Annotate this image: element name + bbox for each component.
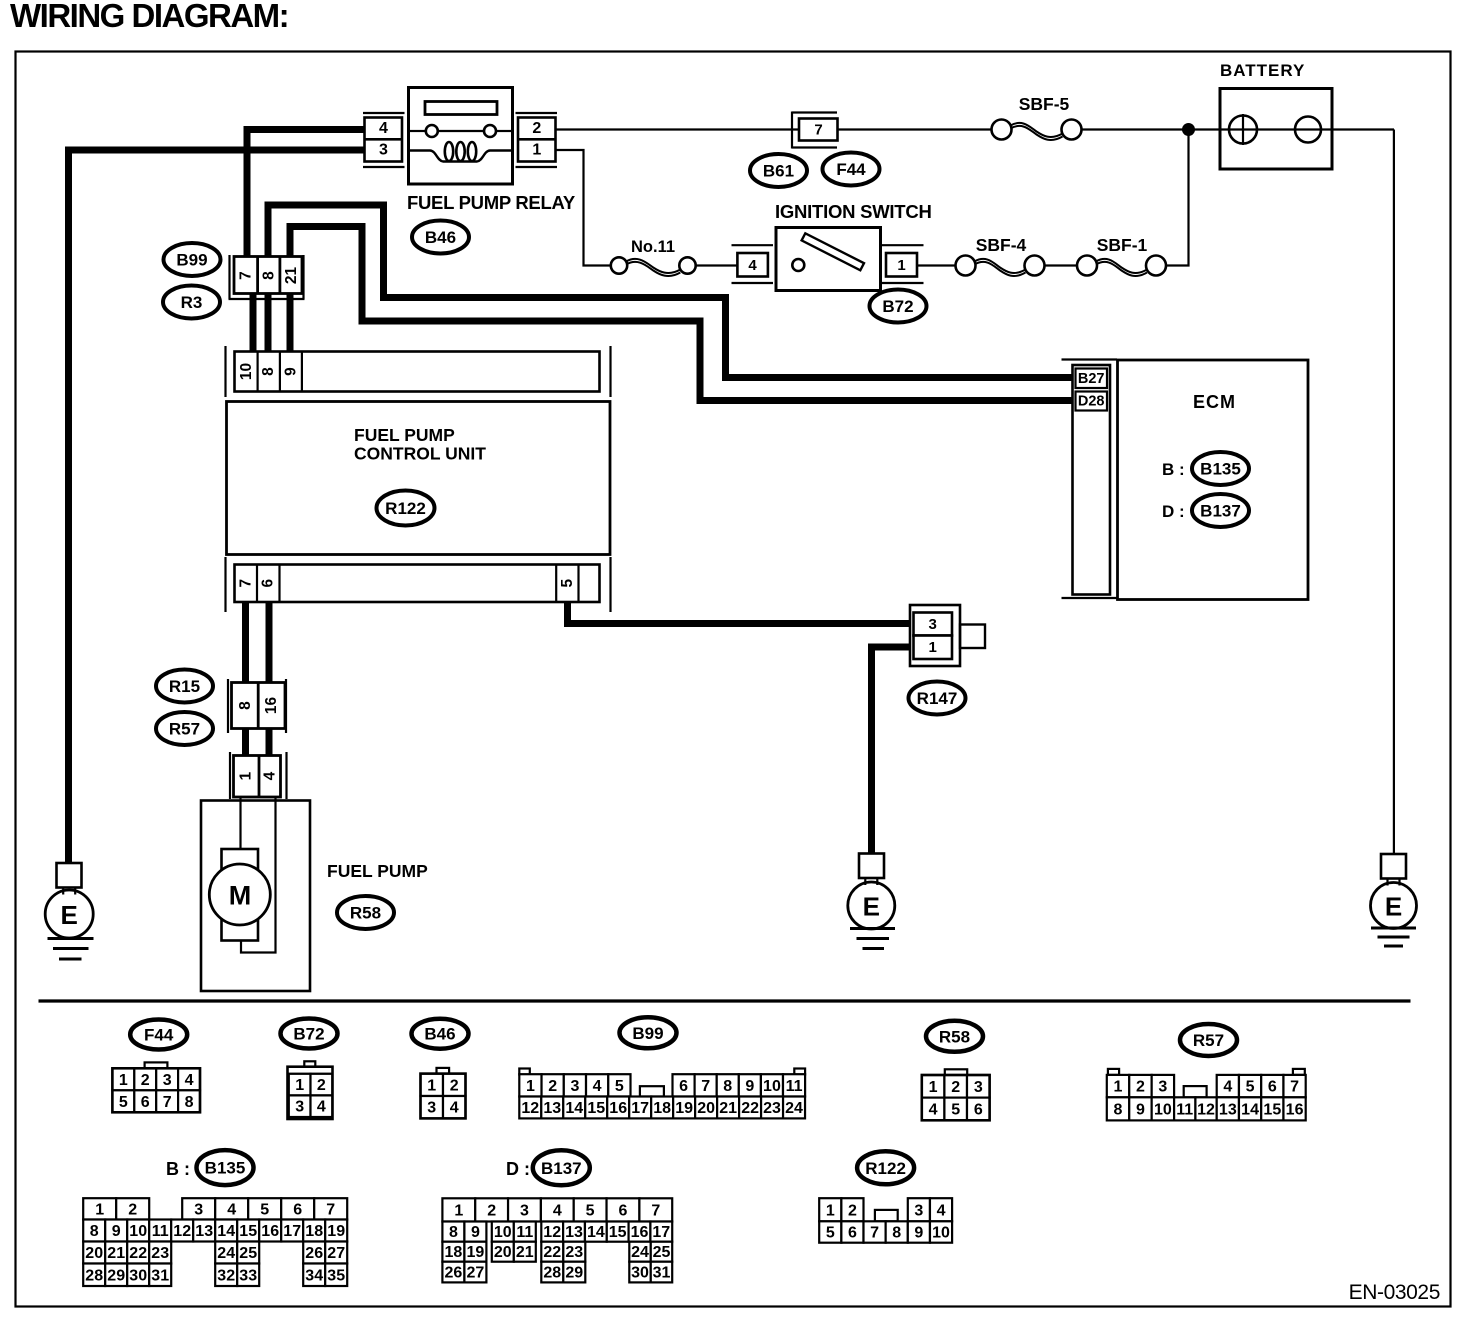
- wire ignition switch pin1 to fuse SBF-4: [916, 264, 956, 266]
- ECM connector column: [1073, 365, 1111, 595]
- svg-text:B61: B61: [763, 162, 794, 181]
- svg-text:2: 2: [548, 1078, 557, 1095]
- svg-text:M: M: [229, 881, 252, 911]
- connector label B61: [750, 154, 807, 187]
- svg-text:30: 30: [129, 1267, 147, 1284]
- svg-text:14: 14: [565, 1100, 583, 1117]
- svg-text:4: 4: [379, 120, 388, 137]
- svg-text:22: 22: [129, 1245, 147, 1262]
- svg-text:17: 17: [652, 1224, 670, 1241]
- svg-text:8: 8: [1114, 1101, 1123, 1118]
- label FUEL PUMP: [327, 861, 428, 881]
- svg-text:7: 7: [701, 1078, 710, 1095]
- svg-text:R57: R57: [1193, 1031, 1224, 1050]
- svg-text:2: 2: [848, 1202, 857, 1219]
- fuel pump relay B46 body: [409, 88, 513, 185]
- svg-text:4: 4: [227, 1201, 236, 1218]
- svg-text:21: 21: [719, 1100, 737, 1117]
- fuse SBF-5: [992, 120, 1082, 141]
- svg-text:R3: R3: [181, 293, 203, 312]
- control unit bottom connector brackets: [226, 557, 611, 612]
- svg-text:24: 24: [785, 1100, 803, 1117]
- svg-text:15: 15: [239, 1223, 257, 1240]
- svg-text:17: 17: [283, 1223, 301, 1240]
- wire relay pin2 to fuse connector 7: [554, 128, 799, 130]
- svg-text:32: 32: [217, 1267, 235, 1284]
- svg-text:2: 2: [1136, 1079, 1145, 1096]
- svg-text:4: 4: [1223, 1079, 1232, 1096]
- ground E right: [1371, 854, 1417, 946]
- svg-text:1: 1: [532, 142, 541, 159]
- ignition switch connector pin1: [882, 245, 924, 283]
- connector R15 R57 brackets: [228, 679, 286, 733]
- fuse SBF-1: [1077, 256, 1166, 277]
- svg-text:21: 21: [107, 1245, 125, 1262]
- svg-text:10: 10: [932, 1225, 950, 1242]
- svg-text:19: 19: [675, 1100, 693, 1117]
- svg-text:B99: B99: [632, 1024, 663, 1043]
- wire battery feed down right side to ground E right: [1393, 130, 1395, 856]
- wire R147 pin1 to ground E middle: [872, 647, 915, 854]
- svg-text:28: 28: [543, 1265, 561, 1282]
- label ECM: [1193, 392, 1236, 412]
- svg-text:R58: R58: [350, 904, 381, 923]
- wire relay pin4 to connector B99 pin7: [247, 130, 366, 259]
- svg-text:28: 28: [85, 1267, 103, 1284]
- svg-text:8: 8: [90, 1223, 99, 1240]
- svg-text:21: 21: [516, 1244, 534, 1261]
- ground E middle: [848, 854, 895, 949]
- wire relay pin3 to ground E left: [69, 150, 367, 863]
- svg-text:R57: R57: [169, 720, 200, 739]
- svg-text:31: 31: [151, 1267, 169, 1284]
- svg-text:31: 31: [653, 1265, 671, 1282]
- svg-text:R122: R122: [865, 1159, 906, 1178]
- label SBF-5: [1019, 94, 1070, 114]
- connector label R58: [337, 896, 394, 929]
- svg-text:R15: R15: [169, 677, 200, 696]
- wire R15 pin16 to fuel pump connector pin4: [266, 727, 273, 758]
- svg-text:13: 13: [543, 1100, 561, 1117]
- svg-text:7: 7: [237, 579, 254, 588]
- ignition switch box: [776, 228, 881, 291]
- svg-text:6: 6: [141, 1094, 150, 1111]
- svg-text:D :: D :: [1162, 502, 1185, 521]
- svg-text:B137: B137: [1200, 502, 1241, 521]
- connector label R15: [156, 670, 213, 703]
- svg-text:12: 12: [1197, 1101, 1215, 1118]
- svg-text:3: 3: [570, 1078, 579, 1095]
- svg-text:1: 1: [526, 1078, 535, 1095]
- svg-text:25: 25: [653, 1244, 671, 1261]
- svg-text:20: 20: [697, 1100, 715, 1117]
- svg-text:8: 8: [260, 271, 277, 280]
- svg-text:E: E: [1385, 892, 1402, 922]
- connector label R122: [377, 491, 435, 526]
- connector pinout B72: [281, 1019, 338, 1120]
- svg-text:17: 17: [631, 1100, 649, 1117]
- svg-text:10: 10: [494, 1224, 512, 1241]
- connector pinout B99: [519, 1017, 805, 1118]
- connector label B46: [412, 221, 469, 254]
- svg-text:4: 4: [261, 771, 278, 780]
- battery box: [1220, 89, 1332, 170]
- svg-text:26: 26: [305, 1245, 323, 1262]
- svg-text:15: 15: [1263, 1101, 1281, 1118]
- svg-text:F44: F44: [836, 160, 866, 179]
- svg-text:3: 3: [427, 1100, 436, 1117]
- wire relay pin1 down to fuse No.11: [554, 150, 611, 266]
- wire control unit pin5 to connector R147 pin3: [568, 601, 913, 624]
- svg-text:18: 18: [305, 1223, 323, 1240]
- svg-text:3: 3: [194, 1201, 203, 1218]
- svg-text:D :: D :: [506, 1159, 530, 1179]
- svg-text:7: 7: [870, 1225, 879, 1242]
- svg-text:F44: F44: [144, 1026, 174, 1045]
- svg-text:5: 5: [826, 1225, 835, 1242]
- label FUEL PUMP CONTROL UNIT: [354, 425, 486, 464]
- svg-text:SBF-4: SBF-4: [976, 235, 1027, 255]
- connector label F44: [823, 153, 880, 186]
- fuel pump motor M: [209, 864, 270, 925]
- svg-text:1: 1: [826, 1202, 835, 1219]
- svg-text:8: 8: [892, 1225, 901, 1242]
- svg-text:2: 2: [141, 1072, 150, 1089]
- svg-text:3: 3: [914, 1202, 923, 1219]
- svg-text:B :: B :: [166, 1159, 190, 1179]
- connector label B99: [164, 243, 221, 276]
- svg-text:11: 11: [152, 1223, 169, 1240]
- svg-text:5: 5: [559, 579, 576, 588]
- svg-text:5: 5: [1246, 1079, 1255, 1096]
- svg-text:5: 5: [586, 1202, 595, 1219]
- label IGNITION SWITCH: [775, 201, 932, 222]
- control unit bottom connector strip pins 7 6 5: [235, 565, 600, 603]
- svg-text:E: E: [863, 892, 880, 922]
- svg-text:16: 16: [609, 1100, 627, 1117]
- svg-text:6: 6: [974, 1101, 983, 1118]
- wire R15 pin8 to fuel pump connector pin1: [242, 727, 249, 758]
- svg-text:5: 5: [260, 1201, 269, 1218]
- wire B99 pin7 to control unit pin10: [250, 294, 257, 353]
- svg-text:1: 1: [238, 771, 255, 780]
- connector pinout R57: [1107, 1024, 1306, 1120]
- svg-text:IGNITION SWITCH: IGNITION SWITCH: [775, 201, 932, 222]
- svg-text:B72: B72: [293, 1025, 324, 1044]
- separator line: [39, 999, 1411, 1002]
- svg-text:4: 4: [748, 257, 757, 274]
- svg-text:6: 6: [848, 1225, 857, 1242]
- svg-text:20: 20: [85, 1245, 103, 1262]
- svg-text:7: 7: [1290, 1079, 1299, 1096]
- fuel pump box: [201, 797, 310, 991]
- svg-text:ECM: ECM: [1193, 392, 1236, 412]
- fuse No.11: [611, 257, 696, 276]
- ECM box: [1118, 360, 1309, 600]
- svg-text:27: 27: [327, 1245, 345, 1262]
- svg-text:6: 6: [293, 1201, 302, 1218]
- svg-text:24: 24: [631, 1244, 649, 1261]
- svg-text:10: 10: [1154, 1101, 1172, 1118]
- svg-text:2: 2: [450, 1077, 459, 1094]
- connector pinout R122: [819, 1151, 952, 1242]
- control unit top connector brackets: [226, 346, 611, 397]
- svg-text:B137: B137: [541, 1159, 582, 1178]
- svg-text:1: 1: [95, 1201, 104, 1218]
- svg-text:7: 7: [814, 122, 822, 139]
- svg-text:23: 23: [763, 1100, 781, 1117]
- svg-text:8: 8: [723, 1078, 732, 1095]
- relay connector pins 4/3: [363, 113, 405, 167]
- connector B99 R3 box pins 7 8 21: [234, 257, 302, 294]
- svg-text:2: 2: [951, 1079, 960, 1096]
- wire control unit pin9 via B99 pin21 to ECM D28: [290, 227, 1076, 401]
- svg-text:15: 15: [587, 1100, 605, 1117]
- svg-text:14: 14: [587, 1224, 605, 1241]
- svg-text:4: 4: [317, 1099, 326, 1116]
- svg-text:23: 23: [151, 1245, 169, 1262]
- svg-text:D28: D28: [1078, 393, 1105, 409]
- svg-text:6: 6: [619, 1202, 628, 1219]
- svg-text:SBF-1: SBF-1: [1097, 235, 1148, 255]
- svg-text:3: 3: [379, 142, 388, 159]
- svg-text:20: 20: [494, 1244, 512, 1261]
- svg-text:1: 1: [1114, 1079, 1123, 1096]
- label No.11: [631, 238, 675, 256]
- svg-text:10: 10: [238, 363, 255, 380]
- svg-text:5: 5: [119, 1094, 128, 1111]
- svg-text:B135: B135: [205, 1159, 246, 1178]
- svg-text:19: 19: [467, 1244, 485, 1261]
- label FUEL PUMP RELAY: [407, 192, 576, 213]
- svg-text:8: 8: [185, 1094, 194, 1111]
- wire control unit pin8 via B99 pin8 to ECM B27: [268, 205, 1076, 378]
- svg-text:35: 35: [327, 1267, 345, 1284]
- svg-text:4: 4: [929, 1101, 938, 1118]
- svg-text:18: 18: [653, 1100, 671, 1117]
- svg-text:11: 11: [516, 1224, 533, 1241]
- control unit main box: [227, 402, 611, 555]
- connector label R147: [909, 682, 966, 715]
- svg-text:2: 2: [317, 1077, 326, 1094]
- svg-text:9: 9: [914, 1225, 923, 1242]
- svg-text:21: 21: [283, 267, 300, 285]
- connector B99 R3 brackets: [229, 255, 305, 299]
- connector label B72: [870, 290, 927, 323]
- ECM pin D28: [1076, 392, 1108, 411]
- svg-text:11: 11: [786, 1078, 803, 1095]
- svg-text:6: 6: [260, 579, 277, 588]
- svg-text:6: 6: [1268, 1079, 1277, 1096]
- svg-text:3: 3: [1158, 1079, 1167, 1096]
- wire between SBF-4 and SBF-1: [1044, 264, 1077, 266]
- svg-text:12: 12: [543, 1224, 561, 1241]
- svg-text:1: 1: [295, 1077, 304, 1094]
- svg-text:13: 13: [1219, 1101, 1237, 1118]
- svg-text:13: 13: [565, 1224, 583, 1241]
- connector pinout B137 with label D: [442, 1150, 672, 1282]
- svg-text:34: 34: [305, 1267, 323, 1284]
- fuse box connector 7: [792, 112, 838, 149]
- svg-text:E: E: [61, 900, 78, 930]
- svg-text:10: 10: [129, 1223, 147, 1240]
- wire SBF-5 to battery positive through battery: [1081, 128, 1394, 130]
- svg-text:9: 9: [282, 367, 299, 376]
- ignition switch connector pin4: [732, 245, 774, 283]
- svg-text:4: 4: [450, 1100, 459, 1117]
- svg-text:13: 13: [195, 1223, 213, 1240]
- wire connector 7 to fuse SBF-5: [837, 128, 992, 130]
- svg-text:7: 7: [238, 271, 255, 280]
- label SBF-4: [976, 235, 1027, 255]
- svg-text:BATTERY: BATTERY: [1220, 61, 1305, 80]
- fuse SBF-4: [956, 256, 1045, 277]
- svg-text:R58: R58: [939, 1027, 970, 1046]
- svg-text:5: 5: [615, 1078, 624, 1095]
- connector pinout B46: [412, 1019, 469, 1119]
- svg-text:14: 14: [217, 1223, 235, 1240]
- svg-text:B135: B135: [1200, 460, 1241, 479]
- svg-text:5: 5: [951, 1101, 960, 1118]
- svg-text:EN-03025: EN-03025: [1349, 1281, 1440, 1304]
- svg-text:3: 3: [929, 616, 937, 633]
- svg-text:1: 1: [897, 257, 905, 274]
- svg-text:3: 3: [295, 1099, 304, 1116]
- svg-text:8: 8: [237, 701, 254, 710]
- svg-text:12: 12: [173, 1223, 191, 1240]
- fuel pump connector box pins 1 4: [234, 756, 281, 798]
- svg-text:9: 9: [471, 1224, 480, 1241]
- connector label R3: [163, 286, 220, 319]
- connector R147 box pins 3/1: [910, 605, 985, 666]
- ECM connector brackets: [1062, 360, 1118, 599]
- svg-text:B27: B27: [1078, 371, 1105, 387]
- connector pinout B135 with label B: [83, 1150, 347, 1286]
- svg-text:23: 23: [565, 1244, 583, 1261]
- svg-text:3: 3: [974, 1079, 983, 1096]
- svg-text:27: 27: [467, 1265, 485, 1282]
- svg-text:FUEL PUMP: FUEL PUMP: [327, 861, 428, 881]
- connector label R57: [156, 712, 213, 745]
- ECM label D:B137: [1162, 494, 1249, 527]
- svg-text:2: 2: [128, 1201, 137, 1218]
- svg-text:8: 8: [260, 367, 277, 376]
- svg-text:1: 1: [427, 1077, 436, 1094]
- svg-text:1: 1: [929, 1079, 938, 1096]
- svg-text:1: 1: [929, 639, 937, 656]
- svg-text:1: 1: [454, 1202, 463, 1219]
- svg-text:3: 3: [163, 1072, 172, 1089]
- fuel pump connector brackets: [230, 752, 287, 799]
- svg-text:16: 16: [263, 697, 280, 715]
- wire fuse No.11 to ignition switch pin4: [695, 264, 738, 266]
- svg-text:9: 9: [1136, 1101, 1145, 1118]
- wire control unit pin6 to connector R15 pin16: [266, 601, 273, 684]
- svg-text:3: 3: [520, 1202, 529, 1219]
- wire SBF-1 to battery junction: [1165, 130, 1189, 266]
- svg-text:33: 33: [239, 1267, 257, 1284]
- svg-text:25: 25: [239, 1245, 257, 1262]
- svg-text:R147: R147: [917, 689, 958, 708]
- connector pinout R58: [922, 1021, 990, 1121]
- svg-text:4: 4: [593, 1078, 602, 1095]
- svg-text:7: 7: [651, 1202, 660, 1219]
- svg-text:7: 7: [163, 1094, 172, 1111]
- svg-text:30: 30: [631, 1265, 649, 1282]
- svg-text:No.11: No.11: [631, 238, 675, 256]
- label SBF-1: [1097, 235, 1148, 255]
- connector R15 R57 box pins 8 16: [232, 683, 286, 729]
- svg-text:4: 4: [937, 1202, 946, 1219]
- svg-text:16: 16: [631, 1224, 649, 1241]
- ground E left: [45, 863, 93, 959]
- svg-text:24: 24: [217, 1245, 235, 1262]
- svg-text:9: 9: [112, 1223, 121, 1240]
- svg-text:4: 4: [553, 1202, 562, 1219]
- svg-text:B46: B46: [425, 228, 456, 247]
- svg-text:B :: B :: [1162, 460, 1185, 479]
- svg-text:CONTROL UNIT: CONTROL UNIT: [354, 444, 486, 464]
- control unit top connector strip pins 10 8 9: [235, 352, 600, 392]
- svg-text:2: 2: [532, 120, 541, 137]
- svg-text:8: 8: [449, 1224, 458, 1241]
- junction dot at battery feed: [1182, 123, 1195, 136]
- svg-text:22: 22: [741, 1100, 759, 1117]
- relay coil: [409, 142, 513, 162]
- ECM pin B27: [1076, 369, 1108, 389]
- svg-text:14: 14: [1241, 1101, 1259, 1118]
- figure number EN-03025: [1349, 1281, 1440, 1304]
- svg-text:11: 11: [1176, 1101, 1193, 1118]
- label BATTERY: [1220, 61, 1305, 80]
- svg-text:29: 29: [107, 1267, 125, 1284]
- svg-text:19: 19: [327, 1223, 345, 1240]
- svg-text:9: 9: [745, 1078, 754, 1095]
- svg-text:10: 10: [763, 1078, 781, 1095]
- svg-text:26: 26: [445, 1265, 463, 1282]
- svg-text:4: 4: [185, 1072, 194, 1089]
- svg-text:18: 18: [445, 1244, 463, 1261]
- svg-text:B99: B99: [176, 251, 207, 270]
- relay connector pins 2/1: [516, 113, 558, 167]
- svg-text:22: 22: [543, 1244, 561, 1261]
- svg-text:16: 16: [1286, 1101, 1304, 1118]
- svg-text:6: 6: [679, 1078, 688, 1095]
- svg-text:SBF-5: SBF-5: [1019, 94, 1070, 114]
- svg-text:B46: B46: [424, 1025, 455, 1044]
- ECM label B:B135: [1162, 452, 1249, 485]
- svg-text:1: 1: [119, 1072, 128, 1089]
- svg-text:R122: R122: [385, 499, 426, 518]
- svg-text:16: 16: [261, 1223, 279, 1240]
- title WIRING DIAGRAM: [10, 0, 288, 34]
- svg-text:FUEL PUMP RELAY: FUEL PUMP RELAY: [407, 192, 576, 213]
- svg-text:FUEL PUMP: FUEL PUMP: [354, 425, 455, 445]
- svg-text:7: 7: [326, 1201, 335, 1218]
- svg-text:WIRING DIAGRAM:: WIRING DIAGRAM:: [10, 0, 288, 34]
- svg-text:B72: B72: [882, 297, 913, 316]
- wire control unit pin7 to connector R15 pin8: [242, 601, 249, 684]
- svg-text:15: 15: [609, 1224, 627, 1241]
- svg-text:2: 2: [487, 1202, 496, 1219]
- connector pinout F44: [112, 1020, 200, 1113]
- svg-text:29: 29: [565, 1265, 583, 1282]
- svg-text:12: 12: [521, 1100, 539, 1117]
